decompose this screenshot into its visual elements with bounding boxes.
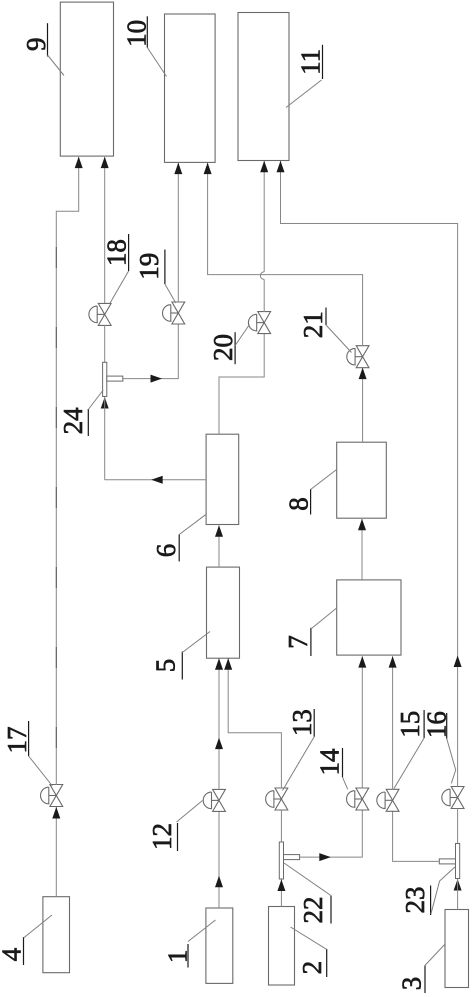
label 5 xyxy=(150,632,210,680)
flow arrow into vessel9 left xyxy=(75,157,83,169)
flow arrow into valve17 xyxy=(52,807,60,819)
label 10 xyxy=(122,16,167,76)
vessel 9 xyxy=(60,2,113,156)
unit 5 xyxy=(207,567,240,658)
tee 23 xyxy=(439,844,459,879)
wire tee22 branch to valve14 xyxy=(300,810,363,858)
flow arrow mid right riser xyxy=(454,656,462,668)
label 2 xyxy=(291,927,327,977)
flow arrow into valve21 xyxy=(359,368,367,380)
svg-text:13: 13 xyxy=(287,709,317,736)
wire tee23 branch to valve15 xyxy=(393,811,440,862)
wire tee22 to valve13 xyxy=(280,810,282,842)
wire unit5 to unit6 xyxy=(218,526,220,568)
wire unit8 top to valve21 xyxy=(362,367,364,442)
flow arrow mid valve12 line xyxy=(215,738,223,750)
flow arrow into vessel9 right xyxy=(101,157,109,169)
tank 3 xyxy=(445,910,469,988)
tee 22 xyxy=(279,842,299,879)
label 19 xyxy=(134,250,176,304)
label 22 xyxy=(284,863,331,924)
tank 1 xyxy=(206,908,233,983)
svg-text:19: 19 xyxy=(134,253,164,280)
line hop xyxy=(260,272,264,280)
svg-text:18: 18 xyxy=(102,239,132,266)
flow arrow into vessel10 right xyxy=(204,163,212,175)
flow arrow into vessel11 left xyxy=(260,161,268,173)
label 8 xyxy=(284,469,338,515)
vessel 10 xyxy=(165,14,216,162)
wire hop to vessel11 left xyxy=(263,161,265,272)
valve 15 xyxy=(377,789,399,811)
svg-text:8: 8 xyxy=(284,497,314,511)
tank 4 xyxy=(43,897,70,973)
svg-text:3: 3 xyxy=(397,977,427,991)
wire tee23 to valve16 xyxy=(457,808,459,843)
wire valve21 to vessel10 right xyxy=(208,163,363,346)
svg-text:14: 14 xyxy=(315,748,345,776)
valve 14 xyxy=(347,788,369,810)
label 16 xyxy=(421,711,455,783)
unit 7 xyxy=(337,580,401,655)
valve 17 xyxy=(40,785,62,807)
wire tee24 to valve18 xyxy=(104,325,106,397)
flow arrow into tee22 xyxy=(277,880,285,892)
svg-text:4: 4 xyxy=(0,947,27,961)
flow arrow into unit5 right xyxy=(224,658,232,670)
flow arrow into vessel10 left xyxy=(174,163,182,175)
wire valve18 to vessel9 xyxy=(104,157,106,304)
valve 20 xyxy=(248,312,270,334)
svg-text:22: 22 xyxy=(298,897,328,924)
flow arrow into unit7 right xyxy=(389,656,397,668)
flow arrow into unit7 left xyxy=(358,656,366,668)
flow arrow into tee24 xyxy=(101,397,109,409)
valve 13 xyxy=(266,788,288,810)
flow arrow unit6 outlet xyxy=(151,476,163,484)
wire valve20 up to hop xyxy=(263,279,265,312)
tee 24 xyxy=(103,362,123,396)
unit 8 xyxy=(337,442,387,518)
label 6 xyxy=(151,514,206,561)
wire tee24 branch to valve19 xyxy=(123,324,179,379)
svg-text:21: 21 xyxy=(298,311,328,338)
svg-text:5: 5 xyxy=(150,659,180,673)
svg-text:9: 9 xyxy=(21,37,51,51)
wire valve13 to unit5 right xyxy=(228,659,281,789)
valve 12 xyxy=(203,789,225,811)
wire tank1 to valve12 xyxy=(218,811,220,908)
wire valve12 to unit5 left xyxy=(218,659,220,790)
svg-text:24: 24 xyxy=(58,407,88,435)
unit 6 xyxy=(206,434,239,524)
wire shading long run xyxy=(55,247,57,784)
wire tank2 to tee22 xyxy=(280,879,282,907)
svg-text:17: 17 xyxy=(2,727,32,754)
svg-text:7: 7 xyxy=(283,635,313,649)
wire riser to tee24 xyxy=(104,397,106,480)
svg-text:6: 6 xyxy=(151,544,181,558)
wire valve15 to unit7 right xyxy=(392,656,394,789)
tank 2 xyxy=(269,907,295,986)
wire tank4 to valve17 xyxy=(55,806,57,897)
svg-text:20: 20 xyxy=(208,334,238,361)
wire unit6 side outlet xyxy=(105,479,206,481)
label 13 xyxy=(283,709,317,791)
label 20 xyxy=(208,325,250,365)
svg-text:23: 23 xyxy=(400,887,430,914)
label 24 xyxy=(58,390,103,436)
flow arrow tee22 branch xyxy=(319,853,331,861)
label 17 xyxy=(2,721,52,786)
flow arrow into tee23 xyxy=(454,879,462,891)
flow arrow into unit5 left xyxy=(215,658,223,670)
wire tank3 to tee23 xyxy=(457,879,459,910)
label 14 xyxy=(315,748,348,789)
label 11 xyxy=(286,45,326,108)
svg-text:11: 11 xyxy=(296,49,326,75)
svg-text:2: 2 xyxy=(297,961,327,975)
wire valve17 up long run xyxy=(56,157,78,785)
label 18 xyxy=(102,234,132,304)
label 3 xyxy=(397,944,446,994)
flow arrow into unit8 xyxy=(358,519,366,531)
flow arrow into unit6 xyxy=(215,525,223,537)
flow arrow above tank1 xyxy=(215,876,223,888)
label 9 xyxy=(21,23,64,75)
flow arrow tee24 branch xyxy=(151,375,163,383)
svg-text:12: 12 xyxy=(147,823,177,850)
flow arrow into vessel11 right xyxy=(277,161,285,173)
label 1 xyxy=(163,920,216,968)
label 23 xyxy=(400,867,455,916)
wire valve19 to vessel10 xyxy=(177,163,179,303)
valve 19 xyxy=(163,302,185,324)
wire valve16 to vessel11 right xyxy=(281,161,458,787)
wire unit7 to unit8 xyxy=(361,519,363,580)
label 12 xyxy=(147,801,203,852)
valve 21 xyxy=(347,346,369,368)
label 15 xyxy=(394,710,425,789)
valve 16 xyxy=(442,787,464,809)
vessel 11 xyxy=(238,13,289,161)
label 21 xyxy=(298,308,352,353)
wire unit6 top to valve20 xyxy=(219,333,264,434)
valve 18 xyxy=(89,303,111,325)
label 7 xyxy=(283,608,337,657)
label 4 xyxy=(0,915,52,965)
svg-text:15: 15 xyxy=(395,711,425,738)
wire valve14 to unit7 left xyxy=(361,656,363,788)
